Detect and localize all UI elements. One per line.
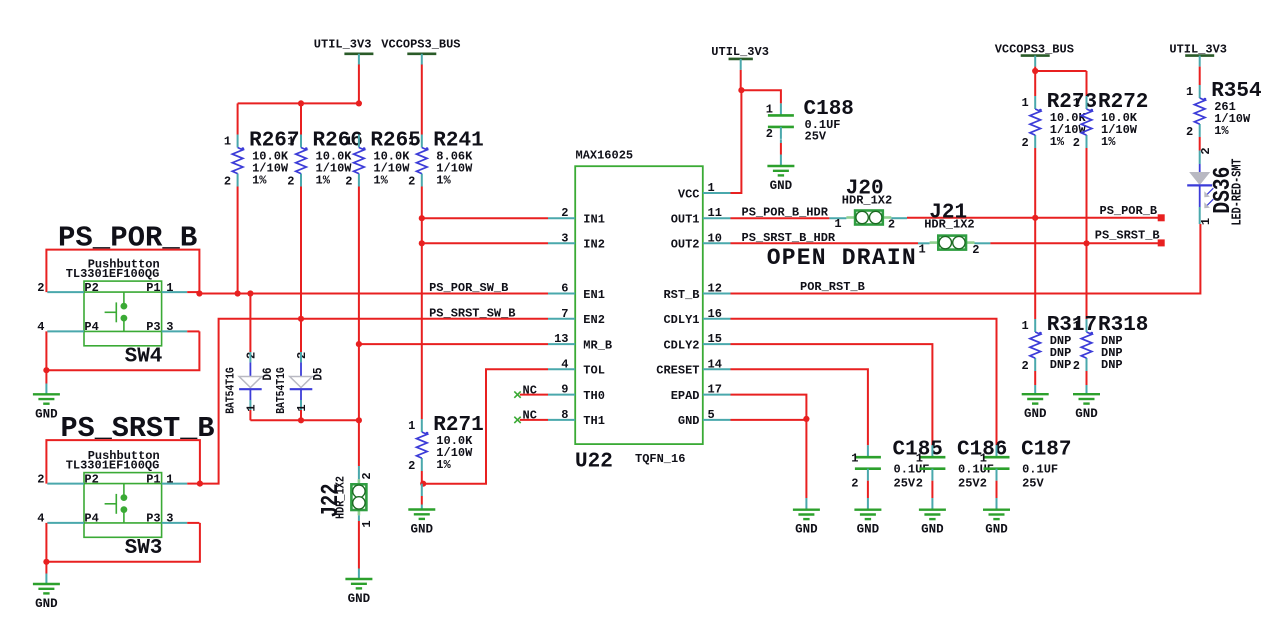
svg-text:GND: GND: [1075, 407, 1098, 421]
svg-text:2: 2: [1199, 147, 1213, 154]
wire net GND pin: [731, 419, 807, 421]
svg-text:4: 4: [37, 512, 44, 526]
resistor R354: [1199, 85, 1201, 98]
svg-text:1: 1: [345, 135, 352, 149]
svg-text:GND: GND: [678, 414, 700, 428]
svg-text:D6: D6: [260, 367, 275, 380]
ground below C185: [854, 509, 881, 511]
svg-text:4: 4: [561, 357, 568, 371]
svg-text:MR_B: MR_B: [583, 338, 612, 352]
wire net PS_SRST_SW_B (EN2): [200, 319, 548, 484]
wire SW3 P4-P3 loop: [46, 523, 200, 562]
svg-text:2: 2: [916, 477, 923, 491]
svg-text:LED-RED-SMT: LED-RED-SMT: [1230, 159, 1246, 226]
wire UTIL_3V3 to pullup rail: [358, 65, 360, 104]
resistor R318 (DNP): [1086, 319, 1088, 332]
pin 7 EN2 of U22: [548, 318, 575, 320]
svg-text:2: 2: [851, 477, 858, 491]
svg-text:P1: P1: [146, 281, 160, 295]
wire SW4 to ground: [45, 370, 47, 383]
diode D6 (BAT54T1G): [249, 294, 251, 353]
svg-text:BAT54T1G: BAT54T1G: [274, 367, 288, 414]
ground below SW4: [33, 393, 60, 395]
svg-text:13: 13: [554, 332, 568, 346]
svg-text:0.1UF: 0.1UF: [1022, 463, 1058, 477]
svg-text:CRESET: CRESET: [656, 364, 699, 378]
wire OUT1 to J20: [731, 217, 830, 219]
no-connect TH0: [514, 391, 520, 397]
svg-text:2: 2: [1073, 359, 1080, 373]
wire net IN1: [422, 217, 548, 219]
svg-text:17: 17: [708, 383, 722, 397]
svg-text:SW3: SW3: [125, 537, 163, 560]
svg-text:GND: GND: [795, 523, 818, 537]
node junction rail/R265: [356, 100, 362, 106]
svg-text:P4: P4: [84, 512, 98, 526]
svg-text:EN2: EN2: [583, 313, 605, 327]
wire net CDLY1 to C187: [731, 319, 997, 445]
svg-text:1: 1: [1021, 319, 1028, 333]
svg-text:OUT1: OUT1: [671, 213, 700, 227]
svg-text:SW4: SW4: [125, 346, 163, 369]
wire R318 to ground: [1086, 371, 1088, 385]
wire OUT2 to J21: [731, 242, 919, 244]
ground below C186: [919, 509, 946, 511]
pin 12 RST_B of U22: [703, 293, 731, 295]
wire J21 to PS_SRST_B: [975, 242, 991, 244]
svg-text:2: 2: [1021, 359, 1028, 373]
svg-text:2: 2: [766, 127, 773, 141]
wire UTIL_3V3 to R354: [1199, 67, 1201, 85]
svg-text:P1: P1: [146, 472, 160, 486]
svg-text:P3: P3: [146, 512, 160, 526]
svg-text:2: 2: [561, 206, 568, 220]
svg-text:1%: 1%: [1101, 135, 1116, 149]
svg-text:1: 1: [408, 135, 415, 149]
wire R267 bottom to EN1 net: [237, 187, 239, 294]
wire SW3 P1 stub: [187, 483, 200, 485]
ground below R317: [1022, 393, 1049, 395]
wire net CDLY2 to C186: [731, 344, 933, 445]
svg-text:2: 2: [37, 472, 44, 486]
connector J20 (HDR_1X2): [846, 216, 855, 219]
node junction R267/EN1: [235, 290, 241, 296]
svg-text:2: 2: [37, 281, 44, 295]
pin 14 CRESET of U22: [703, 368, 731, 370]
svg-text:2: 2: [287, 175, 294, 189]
svg-text:GND: GND: [348, 592, 371, 606]
pin 15 CDLY2 of U22: [703, 343, 731, 345]
op-amp U22 box (MAX16025 supervisor): [575, 166, 703, 444]
node junction VCC/C188: [738, 87, 744, 93]
node junction R266-D5/EN2: [298, 316, 304, 322]
node junction R241/IN2: [419, 240, 425, 246]
svg-text:OUT2: OUT2: [671, 238, 700, 252]
svg-text:1: 1: [287, 135, 294, 149]
wire UTIL_3V3 down: [740, 70, 742, 90]
svg-text:EN1: EN1: [583, 288, 605, 302]
svg-text:2: 2: [360, 472, 374, 479]
svg-text:TL3301EF100QG: TL3301EF100QG: [66, 458, 160, 472]
LED DS36 (LED-RED-SMT): [1199, 164, 1201, 173]
node SW4 ground junction: [43, 367, 49, 373]
node junction R273 column/PS_POR_B: [1032, 215, 1038, 221]
wire R272 bottom to R318: [1086, 148, 1088, 319]
wire branch to R272: [1035, 70, 1086, 72]
svg-text:1: 1: [166, 472, 173, 486]
ground below R271: [408, 508, 435, 510]
svg-text:1: 1: [245, 404, 259, 411]
svg-text:1: 1: [766, 103, 773, 117]
svg-text:2: 2: [980, 477, 987, 491]
svg-text:2: 2: [295, 352, 309, 359]
wire net TOL loop: [423, 369, 548, 483]
svg-text:2: 2: [1186, 125, 1193, 139]
svg-text:2: 2: [1021, 136, 1028, 150]
svg-text:PS_SRST_B_HDR: PS_SRST_B_HDR: [742, 231, 836, 245]
svg-text:1%: 1%: [373, 174, 388, 188]
svg-text:25V: 25V: [894, 477, 916, 491]
connector J21 (HDR_1X2): [930, 241, 939, 244]
svg-text:HDR_1X2: HDR_1X2: [334, 476, 348, 519]
wire SW3 to ground: [45, 562, 47, 574]
diode D5 (BAT54T1G): [300, 319, 302, 352]
svg-text:RST_B: RST_B: [663, 288, 699, 302]
no-connect TH1: [514, 417, 520, 423]
switch SW3: [84, 473, 162, 538]
node junction R265/MR_B: [356, 341, 362, 347]
wire R271 bottom to ground: [421, 471, 423, 484]
svg-text:VCCOPS3_BUS: VCCOPS3_BUS: [381, 38, 460, 52]
svg-text:UTIL_3V3: UTIL_3V3: [314, 38, 372, 52]
svg-text:TH0: TH0: [583, 389, 605, 403]
svg-text:C187: C187: [1021, 439, 1071, 462]
svg-text:GND: GND: [35, 597, 58, 611]
svg-text:2: 2: [1073, 136, 1080, 150]
svg-text:U22: U22: [575, 451, 613, 474]
node junction R271 bottom: [420, 481, 426, 487]
wire SW3 P2-P1 loop: [46, 440, 200, 484]
svg-text:1%: 1%: [252, 174, 267, 188]
svg-text:14: 14: [708, 357, 722, 371]
svg-text:1: 1: [1073, 319, 1080, 333]
pin 5 GND of U22: [703, 419, 731, 421]
wire to C188: [741, 90, 781, 103]
svg-text:IN1: IN1: [583, 213, 605, 227]
pin 3 IN2 of U22: [548, 242, 575, 244]
svg-text:2: 2: [408, 459, 415, 473]
svg-text:2: 2: [245, 352, 259, 359]
node terminal PS_SRST_B: [1158, 239, 1165, 246]
pin 13 MR_B of U22: [548, 343, 575, 345]
svg-text:1%: 1%: [316, 174, 331, 188]
wire R241 bottom through IN1/IN2 to R271: [421, 187, 423, 420]
svg-text:1: 1: [918, 243, 925, 257]
svg-text:1: 1: [1073, 96, 1080, 110]
svg-text:NC: NC: [523, 383, 537, 397]
svg-text:7: 7: [561, 307, 568, 321]
resistor R265: [358, 135, 360, 148]
ground below C187: [983, 509, 1010, 511]
node junction R272 column/PS_SRST_B: [1083, 240, 1089, 246]
capacitor C185: [867, 445, 869, 457]
svg-text:15: 15: [708, 332, 722, 346]
svg-text:PS_POR_SW_B: PS_POR_SW_B: [429, 281, 508, 295]
pin 17 EPAD of U22: [703, 394, 731, 396]
svg-text:1: 1: [980, 452, 987, 466]
svg-text:1%: 1%: [436, 458, 451, 472]
svg-text:2: 2: [345, 175, 352, 189]
svg-text:1%: 1%: [1050, 135, 1065, 149]
svg-text:1: 1: [834, 217, 841, 231]
wire R354 to DS36: [1199, 137, 1201, 151]
svg-text:1: 1: [224, 135, 231, 149]
wire R266 bottom to EN2 net: [300, 187, 302, 319]
wire VCCOPS3_BUS to R241 top: [421, 65, 423, 135]
wire C188 to ground: [780, 139, 782, 143]
svg-text:1: 1: [166, 281, 173, 295]
wire diode cathode bus: [250, 419, 359, 421]
wire rail to R267 top: [237, 103, 239, 134]
svg-text:VCC: VCC: [678, 187, 700, 201]
svg-text:HDR_1X2: HDR_1X2: [924, 217, 974, 231]
wire C187 to ground: [996, 481, 998, 498]
svg-text:NC: NC: [523, 409, 537, 423]
node junction rail/R266: [298, 100, 304, 106]
pin 10 OUT2 of U22: [703, 242, 731, 244]
wire VCC net: [731, 90, 742, 193]
svg-text:UTIL_3V3: UTIL_3V3: [711, 45, 769, 59]
pin 2 IN1 of U22: [548, 217, 575, 219]
svg-text:1: 1: [708, 181, 715, 195]
svg-text:GND: GND: [857, 523, 880, 537]
svg-text:TL3301EF100QG: TL3301EF100QG: [66, 267, 160, 281]
svg-text:25V: 25V: [1022, 477, 1044, 491]
svg-text:GND: GND: [770, 179, 793, 193]
svg-text:HDR_1X2: HDR_1X2: [842, 193, 892, 207]
svg-text:16: 16: [708, 307, 722, 321]
svg-text:MAX16025: MAX16025: [576, 149, 634, 163]
svg-text:1: 1: [916, 452, 923, 466]
capacitor C187: [996, 445, 998, 457]
wire net PS_POR_SW_B (EN1): [199, 293, 548, 295]
svg-text:TQFN_16: TQFN_16: [635, 452, 685, 466]
ground below J22: [345, 578, 372, 580]
svg-text:GND: GND: [1024, 407, 1047, 421]
node terminal PS_POR_B: [1158, 214, 1165, 221]
wire SW4 P4-P3 loop: [46, 331, 199, 370]
svg-text:2: 2: [888, 218, 895, 232]
svg-text:2: 2: [972, 243, 979, 257]
capacitor C188: [780, 103, 782, 115]
svg-text:1: 1: [1021, 96, 1028, 110]
wire J22 to ground: [358, 515, 360, 521]
svg-text:1%: 1%: [1214, 124, 1229, 138]
pin 16 CDLY1 of U22: [703, 318, 731, 320]
wire J20 to PS_POR_B: [891, 217, 907, 219]
ground below R318: [1073, 393, 1100, 395]
pin 6 EN1 of U22: [548, 293, 575, 295]
wire SW4 P1 stub: [187, 291, 199, 293]
pin 4 TOL of U22: [548, 368, 575, 370]
svg-text:1: 1: [408, 419, 415, 433]
svg-text:PS_SRST_SW_B: PS_SRST_SW_B: [429, 307, 515, 321]
node junction VCCOPS3 split: [1032, 68, 1038, 74]
wire C186 to ground: [931, 481, 933, 498]
node SW4 P1 junction: [196, 290, 202, 296]
ground below C188: [767, 165, 794, 167]
svg-text:P2: P2: [84, 281, 98, 295]
wire VCCOPS3_BUS to R273: [1034, 67, 1036, 96]
svg-text:2: 2: [224, 175, 231, 189]
resistor R241: [421, 135, 423, 148]
wire R317 to ground: [1034, 371, 1036, 385]
svg-text:10: 10: [708, 231, 722, 245]
wire R273 bottom to R317: [1034, 148, 1036, 319]
svg-text:25V: 25V: [805, 129, 827, 143]
node junction EPAD/GND: [803, 416, 809, 422]
wire EPAD column to ground: [805, 419, 807, 498]
svg-text:IN2: IN2: [583, 238, 605, 252]
wire net POR_RST_B: [731, 224, 1201, 294]
resistor R272: [1086, 96, 1088, 109]
svg-text:D5: D5: [311, 367, 326, 380]
pin 11 OUT1 of U22: [703, 217, 731, 219]
svg-text:2: 2: [408, 175, 415, 189]
svg-text:3: 3: [561, 231, 568, 245]
svg-text:25V: 25V: [958, 477, 980, 491]
capacitor C186: [931, 445, 933, 457]
wire net MR_B: [359, 343, 548, 345]
connector J22 (HDR_1X2): [358, 479, 361, 484]
svg-text:P3: P3: [146, 320, 160, 334]
wire net EPAD: [731, 395, 807, 419]
node SW3 ground junction: [43, 559, 49, 565]
wire SW4 P2-P1 loop: [46, 250, 199, 293]
svg-text:BAT54T1G: BAT54T1G: [224, 367, 238, 414]
svg-text:PS_SRST_B: PS_SRST_B: [1095, 229, 1160, 243]
svg-text:8: 8: [561, 408, 568, 422]
svg-text:1: 1: [360, 520, 374, 527]
svg-text:GND: GND: [411, 523, 434, 537]
svg-text:DNP: DNP: [1050, 358, 1072, 372]
svg-text:1: 1: [295, 404, 309, 411]
svg-text:GND: GND: [35, 407, 58, 421]
svg-text:4: 4: [37, 320, 44, 334]
node junction D6/EN1: [247, 290, 253, 296]
node junction cathode bus/J22 column: [356, 417, 362, 423]
svg-text:3: 3: [166, 512, 173, 526]
pin 1 VCC of U22: [703, 192, 731, 194]
svg-text:GND: GND: [985, 523, 1008, 537]
svg-text:12: 12: [708, 282, 722, 296]
node junction R241/IN1: [419, 215, 425, 221]
svg-text:1: 1: [1186, 85, 1193, 99]
resistor R273: [1034, 96, 1036, 109]
svg-text:1%: 1%: [436, 174, 451, 188]
svg-text:6: 6: [561, 282, 568, 296]
svg-text:TH1: TH1: [583, 414, 605, 428]
svg-text:POR_RST_B: POR_RST_B: [800, 280, 865, 294]
svg-text:EPAD: EPAD: [671, 389, 700, 403]
resistor R317 (DNP): [1034, 319, 1036, 332]
ground below SW3: [33, 583, 60, 585]
svg-text:PS_POR_B_HDR: PS_POR_B_HDR: [742, 205, 829, 219]
wire R265 bottom to MR_B net: [358, 187, 360, 345]
svg-text:P2: P2: [84, 472, 98, 486]
svg-text:DNP: DNP: [1101, 358, 1123, 372]
wire rail to R266 top: [300, 103, 302, 134]
resistor R267: [237, 135, 239, 148]
svg-text:OPEN DRAIN: OPEN DRAIN: [767, 245, 917, 271]
resistor R266: [300, 135, 302, 148]
pin 9 TH0 of U22: [548, 394, 575, 396]
svg-text:9: 9: [561, 383, 568, 397]
resistor R271: [421, 419, 423, 432]
svg-text:CDLY1: CDLY1: [663, 313, 699, 327]
wire net IN2: [422, 242, 548, 244]
svg-text:CDLY2: CDLY2: [663, 338, 699, 352]
svg-text:PS_POR_B: PS_POR_B: [1100, 204, 1158, 218]
svg-text:1: 1: [851, 452, 858, 466]
switch SW4: [84, 281, 162, 346]
wire C185 to ground: [867, 481, 869, 498]
node SW3 P1 junction: [197, 481, 203, 487]
ground below EPAD/GND pin: [793, 509, 820, 511]
svg-text:GND: GND: [921, 523, 944, 537]
wire pullup rail horizontal: [238, 102, 359, 104]
svg-text:P4: P4: [84, 320, 98, 334]
svg-text:5: 5: [708, 408, 715, 422]
svg-text:3: 3: [166, 320, 173, 334]
wire R265 column down to J22: [358, 344, 360, 420]
node junction D5/cathode bus: [298, 417, 304, 423]
wire net CRESET to C185: [731, 369, 868, 445]
pin 8 TH1 of U22: [548, 419, 575, 421]
svg-text:TOL: TOL: [583, 364, 605, 378]
svg-text:11: 11: [708, 206, 722, 220]
